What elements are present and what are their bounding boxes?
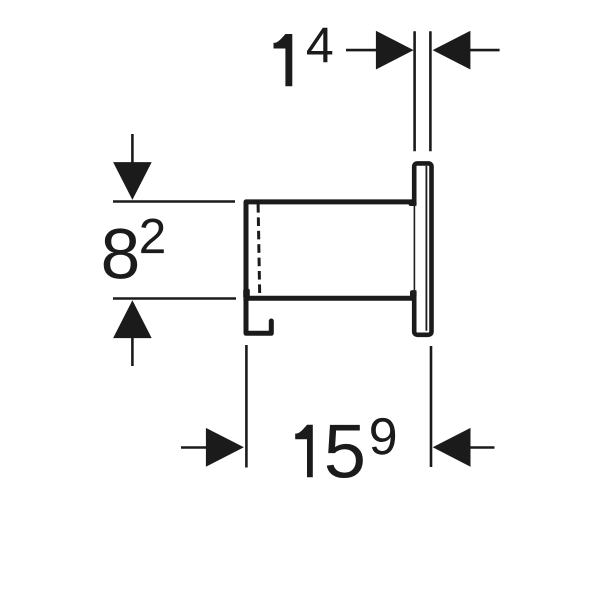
left dimension 82: top arrowhead [113, 162, 152, 200]
left dimension 82: bottom arrow tail [131, 338, 134, 367]
bottom dimension 159: left tail [181, 446, 207, 449]
flange left edge mask between tube walls [412, 206, 418, 290]
bottom dimension 159: extension line right [430, 346, 433, 467]
left dimension 82: extension line top [113, 200, 235, 203]
left dimension label 8 [104, 228, 137, 279]
bottom dimension 159: right arrowhead [433, 428, 471, 467]
flange face inner line [425, 166, 427, 331]
hidden edge dashed line [258, 204, 260, 296]
bottom dimension 159: right tail [470, 446, 494, 449]
left dimension 82: bottom arrowhead [113, 300, 152, 338]
flange plate outline [412, 163, 432, 334]
left dimension 82: top arrow tail [131, 134, 134, 163]
top dimension 14: right arrowhead [433, 31, 471, 70]
flange left edge thin segment [413, 204, 415, 292]
joint nub at top wall / flange [409, 201, 417, 207]
top dimension 14: left arrowhead [376, 31, 414, 70]
left dimension label superscript 2 [141, 218, 164, 253]
corner fillet at tube bottom-left [243, 289, 250, 298]
top dimension 14: left tail [346, 49, 377, 52]
bottom dimension 159: left arrowhead [206, 428, 244, 467]
body tube outline with hook [243, 201, 416, 334]
flange outer rectangle [414, 163, 431, 334]
top dimension 14: extension line right [429, 31, 432, 151]
tube top wall and left edge [246, 202, 416, 333]
hook bottom and lip [246, 321, 271, 333]
bottom dimension 159: extension line left [245, 345, 248, 468]
joint nub at bottom wall / flange [410, 290, 417, 298]
top dimension 14: extension line left [413, 31, 416, 151]
bottom dimension label digit 1 [295, 425, 313, 478]
bottom dimension label superscript 9 [371, 418, 395, 455]
tube bottom wall [243, 296, 416, 301]
left dimension 82: extension line bottom [113, 297, 236, 300]
top dimension label digit 1 [274, 34, 293, 86]
bottom dimension label digit 5 [327, 425, 363, 478]
top dimension 14: right tail [470, 49, 500, 52]
top dimension label superscript 4 [307, 28, 332, 63]
